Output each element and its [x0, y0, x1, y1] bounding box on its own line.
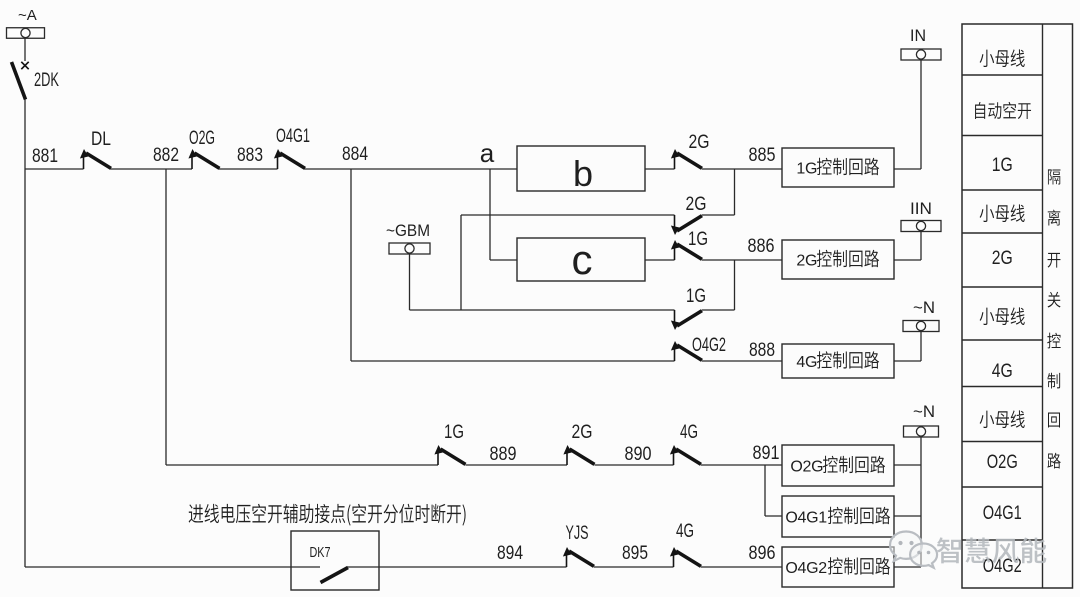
wire inside DK7 left	[291, 566, 320, 568]
svg-text:885: 885	[749, 145, 776, 166]
svg-text:O4G1: O4G1	[983, 503, 1022, 524]
wire GBM down	[409, 254, 411, 310]
box 1G control circuit	[782, 148, 894, 187]
cell O2G	[987, 452, 1018, 473]
svg-text:O4G1: O4G1	[276, 126, 310, 147]
label 1G (upper)	[688, 229, 708, 250]
svg-text:c: c	[572, 236, 593, 283]
wire O4G2 rail	[351, 360, 675, 362]
svg-text:894: 894	[497, 543, 523, 564]
svg-text:2G: 2G	[686, 194, 707, 215]
svg-text:YJS: YJS	[566, 523, 589, 544]
svg-text:DL: DL	[91, 129, 111, 150]
svg-text:a: a	[480, 138, 495, 168]
svg-text:IIN: IIN	[910, 199, 932, 218]
junction 891 drop to O4G1	[764, 465, 766, 516]
label 890	[625, 444, 652, 465]
label O4G2 (switch)	[692, 335, 726, 356]
node 882 vertical to 889 rail	[165, 169, 167, 465]
cell 小母线 (row4)	[980, 204, 1025, 222]
wire 2G lower	[461, 214, 675, 216]
cell 2G	[992, 248, 1013, 269]
switch O4G2	[671, 341, 702, 361]
svg-text:4G: 4G	[680, 422, 698, 443]
label ~GBM	[386, 221, 430, 240]
fuse ~A	[7, 28, 45, 39]
switch YJS	[563, 547, 594, 567]
label O2G控制回路	[790, 456, 885, 476]
wire 2G lower right segment	[702, 214, 735, 216]
svg-text:896: 896	[749, 543, 776, 564]
svg-text:2G: 2G	[796, 253, 817, 270]
label 882	[153, 145, 179, 166]
label 888	[749, 340, 775, 361]
box DK7	[291, 531, 379, 590]
label 4G (bottom rail)	[676, 521, 694, 542]
label 886	[748, 236, 775, 257]
wire 889 rail segment 2	[466, 464, 568, 466]
svg-text:4G: 4G	[676, 521, 694, 542]
wire bus 884 segment	[305, 168, 518, 170]
wire 895 segment	[594, 566, 674, 568]
svg-text:2G: 2G	[992, 248, 1013, 269]
cell 1G	[992, 155, 1013, 176]
wire 891 segment	[701, 464, 782, 466]
label b	[573, 153, 593, 194]
switch 4G on 889 rail	[670, 445, 701, 465]
wire 886	[702, 259, 782, 261]
fuse IN	[901, 49, 941, 60]
box b	[517, 146, 645, 191]
wire DK7 to YJS	[347, 566, 567, 568]
svg-text:~N: ~N	[913, 298, 935, 317]
fuse ~N 4G	[903, 321, 939, 332]
box c	[517, 238, 645, 281]
label 2G控制回路	[796, 250, 879, 270]
fuse ~GBM	[389, 243, 430, 254]
table row divider 5	[962, 286, 1043, 288]
wire 2G box to IIN	[894, 259, 921, 261]
label IN	[910, 26, 926, 45]
node 884 vertical to O4G2 rail	[350, 169, 352, 361]
svg-text:4G: 4G	[992, 361, 1013, 382]
svg-text:O2G: O2G	[987, 452, 1018, 473]
label 1G (lower)	[686, 286, 706, 307]
box 2G control circuit	[782, 240, 894, 279]
svg-text:b: b	[573, 153, 593, 194]
svg-text:DK7: DK7	[310, 544, 331, 561]
switch 2G lower inverted	[671, 215, 702, 235]
junction 886 drop to 1G lower wire	[734, 260, 736, 310]
switch O4G1	[274, 149, 305, 169]
cell O4G2	[983, 556, 1022, 577]
svg-text:O4G1: O4G1	[785, 510, 827, 527]
wire a to box c	[490, 259, 517, 261]
switch 2G on 889 rail	[563, 445, 594, 465]
wire 2DK to bus	[24, 99, 26, 169]
wire bottom rail to DK7	[25, 566, 291, 568]
svg-text:~A: ~A	[18, 7, 37, 24]
cell 自动空开	[975, 102, 1031, 119]
label O4G2控制回路	[785, 557, 890, 577]
cell 4G	[992, 361, 1013, 382]
label O4G1控制回路	[785, 507, 890, 527]
svg-text:895: 895	[622, 543, 648, 564]
label 1G (889 rail)	[444, 422, 464, 443]
wire 896 segment	[701, 566, 782, 568]
wire vertical GBM branch x461	[460, 215, 462, 310]
watermark logo	[890, 532, 937, 568]
wire box b to 2G switch	[645, 168, 675, 170]
svg-text:~N: ~N	[913, 402, 935, 421]
cell 小母线 (row1)	[980, 49, 1025, 67]
table row divider 7	[962, 386, 1043, 388]
breaker 2DK contact x	[21, 62, 28, 69]
label 1G控制回路	[796, 158, 879, 178]
svg-text:1G: 1G	[444, 422, 464, 443]
label 884	[342, 144, 368, 165]
svg-text:IN: IN	[910, 26, 926, 45]
wire O4G1 box to ~N vertical	[894, 515, 921, 517]
cell 小母线 (row6)	[980, 307, 1025, 325]
table divider column	[1042, 24, 1044, 588]
wire ~A to 2DK contact	[24, 38, 26, 61]
switch O2G	[188, 149, 219, 169]
wire left vertical (881 rail down)	[24, 169, 26, 567]
svg-text:882: 882	[153, 145, 179, 166]
table row divider 2	[962, 135, 1043, 137]
svg-text:891: 891	[753, 443, 780, 464]
label 894	[497, 543, 523, 564]
vertical legend 隔离开关控制回路	[1047, 169, 1061, 468]
label 2DK	[34, 70, 59, 91]
wire O2G box to ~N vertical	[894, 464, 921, 466]
wire bus 883 segment	[219, 168, 278, 170]
label 2G (889 rail)	[572, 422, 593, 443]
wire ~N fuse down to 4G rail	[920, 332, 922, 362]
wire bus 881 segment	[25, 168, 84, 170]
label O4G1	[276, 126, 310, 147]
wire 890 segment	[595, 464, 674, 466]
wire 885	[702, 168, 782, 170]
switch 4G on bottom rail	[670, 547, 701, 567]
breaker 2DK blade	[12, 62, 26, 100]
wire 1G lower	[410, 309, 675, 311]
fuse ~N O-group	[904, 426, 939, 437]
label ~A	[18, 7, 37, 24]
label 881	[32, 146, 58, 167]
svg-text:1G: 1G	[688, 229, 708, 250]
table row divider 4	[962, 232, 1043, 234]
wire 1G lower right segment	[702, 309, 735, 311]
wire box c to 1G switch	[645, 259, 675, 261]
svg-text:890: 890	[625, 444, 652, 465]
svg-text:O2G: O2G	[790, 459, 823, 476]
box O2G control circuit	[782, 445, 894, 486]
box 4G control circuit	[782, 344, 894, 378]
label 2G (top)	[689, 132, 710, 153]
wire 889 rail segment 1	[166, 464, 438, 466]
svg-text:884: 884	[342, 144, 368, 165]
switch DL	[80, 149, 111, 169]
label O2G	[189, 128, 215, 149]
switch 1G upper	[671, 240, 702, 260]
node a vertical to box c	[489, 169, 491, 260]
wire IN fuse down	[920, 60, 922, 169]
wire into O4G1 box	[765, 515, 782, 517]
wire 888	[702, 360, 782, 362]
wire 4G box to ~N	[894, 360, 921, 362]
svg-text:O2G: O2G	[189, 128, 215, 149]
svg-text:889: 889	[490, 444, 517, 465]
table row divider 10	[962, 539, 1043, 541]
label ~N (4G)	[913, 298, 935, 317]
label ~N (O-group)	[913, 402, 935, 421]
svg-text:2DK: 2DK	[34, 70, 59, 91]
switch 1G lower inverted	[671, 310, 702, 330]
svg-text:2G: 2G	[572, 422, 593, 443]
svg-text:888: 888	[749, 340, 775, 361]
wire IIN fuse down	[920, 232, 922, 261]
label 进线电压空开辅助接点(空开分位时断开)	[189, 504, 466, 526]
table outer frame	[962, 24, 1073, 588]
table row divider 6	[962, 339, 1043, 341]
svg-text:881: 881	[32, 146, 58, 167]
svg-text:883: 883	[237, 145, 263, 166]
watermark 智慧风能	[937, 537, 1046, 563]
svg-text:4G: 4G	[796, 354, 817, 371]
label node a	[480, 138, 495, 168]
table row divider 3	[962, 189, 1043, 191]
cell O4G1	[983, 503, 1022, 524]
label 896	[749, 543, 776, 564]
junction 885 drop to 2G lower wire	[734, 169, 736, 215]
label 885	[749, 145, 776, 166]
label 889	[490, 444, 517, 465]
table row divider 8	[962, 441, 1043, 443]
switch 1G on 889 rail	[434, 445, 465, 465]
label DL	[91, 129, 111, 150]
wire 1G box to IN	[894, 168, 921, 170]
svg-text:~GBM: ~GBM	[386, 221, 430, 240]
svg-text:1G: 1G	[992, 155, 1013, 176]
fuse IIN	[901, 221, 941, 232]
table row divider 1	[962, 74, 1043, 76]
cell 小母线 (row8)	[980, 410, 1025, 428]
box O4G1 control circuit	[782, 496, 894, 537]
wire bus 882 segment	[111, 168, 193, 170]
svg-text:2G: 2G	[689, 132, 710, 153]
label 4G控制回路	[796, 351, 879, 371]
switch 2G top	[671, 149, 702, 169]
svg-text:886: 886	[748, 236, 775, 257]
svg-text:1G: 1G	[796, 161, 817, 178]
label 895	[622, 543, 648, 564]
label DK7	[310, 544, 331, 561]
label 891	[753, 443, 780, 464]
svg-text:O4G2: O4G2	[692, 335, 726, 356]
label 883	[237, 145, 263, 166]
box O4G2 control circuit	[782, 547, 894, 587]
svg-text:O4G2: O4G2	[785, 560, 827, 577]
wire O4G2 box to ~N vertical	[894, 566, 921, 568]
table row divider 9	[962, 486, 1043, 488]
label IIN	[910, 199, 932, 218]
label YJS	[566, 523, 589, 544]
label 4G (889 rail)	[680, 422, 698, 443]
switch DK7 blade	[321, 568, 349, 583]
label 2G (lower)	[686, 194, 707, 215]
wire ~N fuse down to O4G2 level	[920, 437, 922, 567]
label c	[572, 236, 593, 283]
svg-text:1G: 1G	[686, 286, 706, 307]
